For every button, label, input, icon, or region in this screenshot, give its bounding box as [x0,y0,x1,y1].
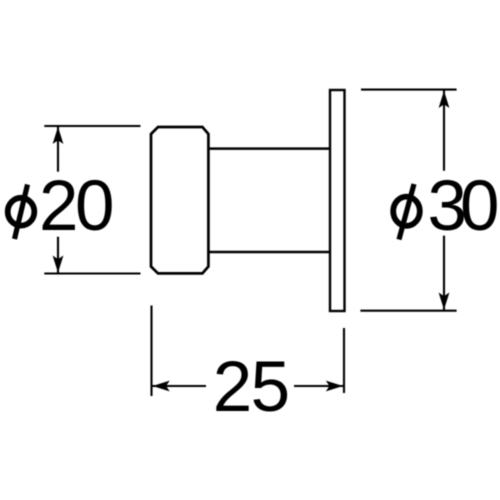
extension line phi20 top [44,125,140,127]
arrowhead phi30 up [439,91,450,108]
svg-text:0: 0 [75,167,115,246]
dimension line 25 left segment [153,385,207,387]
extension line phi30 top [361,89,457,91]
extension line 25 left [150,306,152,397]
extension line 25 right [343,328,345,393]
extension line phi20 bottom [44,272,140,274]
arrowhead phi30 down [439,293,450,310]
knob body (octagonal front profile) [151,127,208,273]
arrowhead phi20 up [53,127,64,144]
svg-text:5: 5 [251,348,291,427]
stem bottom line [208,251,330,254]
dimension line 25 right segment [294,385,343,387]
arrowhead phi20 down [53,256,64,273]
phi symbol of phi20: slash [15,185,28,240]
extension line phi30 bottom [360,310,456,312]
phi symbol of phi30: slash [399,184,414,240]
stem top line [208,147,330,150]
dimension line phi30 upper segment [443,91,445,171]
svg-text:0: 0 [460,167,500,246]
dimension line phi20 lower segment [57,237,59,273]
dimension line phi30 lower segment [443,236,445,310]
svg-text:2: 2 [213,348,253,427]
flange plate [330,90,345,311]
arrowhead 25 right [326,381,343,392]
phi symbol of phi20: ellipse [8,198,35,226]
dimension line phi20 upper segment [57,127,59,172]
phi symbol of phi30: ellipse [393,197,420,226]
arrowhead 25 left [153,381,170,392]
svg-text:2: 2 [39,167,79,246]
